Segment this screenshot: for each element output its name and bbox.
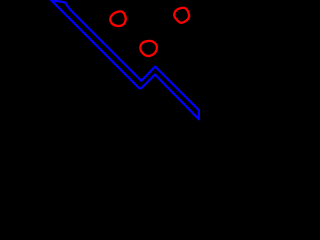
wire: blue double zigzag stroke [51,0,199,119]
node O1: red circle top-left [110,11,125,26]
node O3: red circle middle [140,41,157,56]
node O2: red circle top-right [174,8,189,23]
